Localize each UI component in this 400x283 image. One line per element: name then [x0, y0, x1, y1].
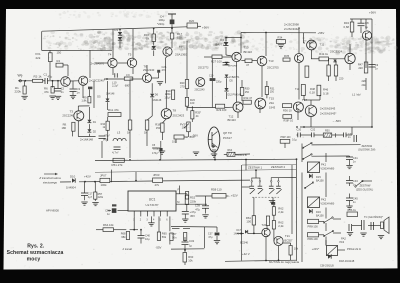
svg-text:BC546: BC546	[240, 241, 248, 245]
svg-text:+42 V: +42 V	[242, 252, 250, 256]
svg-text:270: 270	[180, 84, 185, 88]
svg-text:150: 150	[270, 91, 275, 94]
svg-text:1μ: 1μ	[365, 25, 369, 29]
svg-text:T17: T17	[302, 98, 307, 102]
svg-text:10k: 10k	[188, 259, 193, 263]
svg-text:0,1μ: 0,1μ	[292, 139, 297, 142]
svg-text:1,5μ*: 1,5μ*	[164, 95, 170, 99]
svg-text:T4: T4	[108, 53, 112, 57]
svg-text:2SC3773: 2SC3773	[198, 67, 209, 70]
svg-text:680*: 680*	[125, 83, 130, 87]
svg-text:220: 220	[339, 77, 344, 81]
svg-text:150: 150	[57, 51, 62, 55]
svg-text:R32·47: R32·47	[244, 96, 253, 100]
svg-text:T15: T15	[269, 97, 274, 101]
svg-text:BA158: BA158	[316, 215, 324, 218]
svg-text:10Ω: 10Ω	[172, 141, 177, 144]
svg-text:47μ*: 47μ*	[104, 134, 111, 138]
svg-text:C19: C19	[209, 74, 214, 77]
svg-text:2×BAY71: 2×BAY71	[229, 76, 240, 79]
svg-text:QP TR: QP TR	[223, 131, 232, 135]
svg-text:L3: L3	[117, 131, 121, 135]
svg-text:1n: 1n	[77, 90, 81, 94]
svg-text:45V: 45V	[190, 214, 195, 218]
svg-text:APY-8000: APY-8000	[46, 209, 59, 213]
svg-text:D1: D1	[93, 120, 97, 124]
svg-text:4,7n*: 4,7n*	[112, 151, 119, 155]
svg-text:1n: 1n	[353, 200, 356, 204]
svg-text:D15: D15	[316, 175, 321, 179]
svg-text:C31: C31	[105, 209, 110, 213]
svg-text:1N4004: 1N4004	[66, 186, 76, 190]
svg-text:C57: C57	[172, 232, 177, 236]
svg-text:T13: T13	[269, 59, 274, 63]
svg-text:D16: D16	[316, 210, 321, 214]
svg-text:*220p: *220p	[157, 22, 165, 26]
svg-text:100μ: 100μ	[153, 148, 159, 151]
svg-text:0,18: 0,18	[310, 91, 316, 95]
svg-text:R34: R34	[278, 36, 283, 40]
svg-text:C40: C40	[145, 234, 150, 238]
svg-text:47n: 47n	[162, 68, 167, 72]
svg-text:C32: C32	[189, 239, 195, 243]
svg-text:220k: 220k	[98, 196, 104, 199]
svg-text:100: 100	[246, 220, 251, 224]
svg-text:D2: D2	[93, 130, 97, 134]
svg-text:T8: T8	[173, 109, 177, 113]
svg-text:+56V: +56V	[318, 31, 325, 35]
svg-text:2 kanał: 2 kanał	[122, 247, 133, 251]
svg-text:47: 47	[246, 63, 250, 67]
svg-text:R38*·10: R38*·10	[284, 119, 294, 123]
svg-text:2×2SA970: 2×2SA970	[91, 62, 105, 66]
svg-text:1N4148: 1N4148	[234, 232, 243, 235]
svg-text:+42V: +42V	[84, 175, 91, 179]
svg-text:47μ: 47μ	[48, 74, 53, 78]
svg-text:PRG2-2k Ω: PRG2-2k Ω	[347, 247, 361, 251]
svg-text:C45: C45	[353, 197, 358, 201]
svg-text:22k: 22k	[36, 56, 41, 60]
svg-text:Rys. 2.: Rys. 2.	[27, 243, 45, 249]
svg-text:BA158: BA158	[316, 179, 324, 182]
svg-text:JP03: JP03	[153, 173, 160, 177]
svg-text:T6: T6	[144, 65, 148, 69]
svg-text:T7: T7	[179, 45, 183, 49]
svg-text:MUTING do nagrywania: MUTING do nagrywania	[269, 260, 299, 264]
svg-text:R11·47k: R11·47k	[108, 108, 119, 112]
svg-text:1μ: 1μ	[189, 244, 193, 248]
svg-text:2SC3324: 2SC3324	[330, 50, 342, 54]
svg-text:R35: R35	[284, 54, 290, 58]
svg-text:1n: 1n	[61, 90, 65, 94]
svg-text:1N4148: 1N4148	[153, 99, 162, 102]
svg-text:D3: D3	[114, 28, 118, 32]
svg-text:2SC2240: 2SC2240	[143, 68, 155, 72]
svg-text:1N4148: 1N4148	[106, 93, 115, 96]
svg-text:R64: R64	[228, 149, 233, 152]
svg-text:PR8-100: PR8-100	[308, 224, 319, 228]
svg-text:C30: C30	[297, 128, 302, 131]
svg-text:1943: 1943	[269, 106, 276, 110]
svg-text:D12 PN4148: D12 PN4148	[228, 93, 242, 96]
svg-text:2×2SA1943*: 2×2SA1943*	[320, 112, 337, 116]
svg-text:R51·27k: R51·27k	[112, 163, 123, 167]
svg-text:2k8: 2k8	[362, 80, 367, 83]
svg-text:BF423: BF423	[228, 118, 237, 122]
svg-text:220p: 220p	[216, 81, 222, 84]
svg-text:T14: T14	[295, 88, 300, 91]
svg-text:Z transformatora: Z transformatora	[38, 176, 61, 180]
svg-text:R29·100: R29·100	[216, 108, 227, 112]
svg-text:2SC2705: 2SC2705	[267, 65, 279, 69]
svg-text:R65: R65	[162, 232, 167, 236]
svg-text:+56V: +56V	[202, 26, 209, 30]
svg-text:Pk3: Pk3	[340, 240, 345, 244]
svg-text:1,8k: 1,8k	[81, 99, 87, 103]
svg-text:UL7317P: UL7317P	[146, 203, 159, 207]
svg-text:56n: 56n	[172, 236, 177, 240]
svg-text:ZESTAW 2: ZESTAW 2	[271, 165, 286, 169]
svg-text:BF422: BF422	[244, 50, 253, 54]
svg-text:220k: 220k	[190, 200, 197, 204]
svg-text:-55V: -55V	[156, 246, 162, 250]
svg-text:→-56V: →-56V	[189, 134, 198, 138]
svg-text:56k: 56k	[162, 235, 167, 239]
svg-text:2,2k: 2,2k	[278, 224, 284, 228]
svg-text:2×2SC3998: 2×2SC3998	[284, 22, 299, 26]
svg-text:C43: C43	[353, 179, 358, 183]
svg-text:T11: T11	[320, 43, 325, 47]
svg-text:R2·1k: R2·1k	[34, 75, 43, 79]
svg-text:R58·110: R58·110	[211, 188, 222, 192]
svg-text:R48: R48	[310, 87, 315, 91]
svg-text:UC1: UC1	[149, 198, 156, 202]
svg-text:C41: C41	[353, 156, 358, 160]
svg-text:2×2SA1943: 2×2SA1943	[320, 107, 336, 111]
svg-text:+56V: +56V	[369, 11, 376, 15]
svg-text:220k: 220k	[15, 90, 22, 94]
svg-text:JP07: JP07	[100, 173, 107, 177]
svg-text:Wy: Wy	[103, 138, 108, 142]
svg-text:R60: R60	[188, 255, 193, 259]
svg-text:23A: 23A	[269, 101, 274, 105]
svg-text:R68: R68	[121, 232, 126, 236]
svg-text:2SA1360: 2SA1360	[175, 52, 187, 56]
svg-text:V23034-M80: V23034-M80	[321, 203, 335, 206]
svg-text:V23034-M80: V23034-M80	[321, 168, 335, 171]
svg-text:2×1N4148: 2×1N4148	[80, 137, 93, 141]
svg-text:68k: 68k	[121, 235, 126, 239]
svg-text:1n: 1n	[353, 183, 356, 187]
svg-text:PA2: PA2	[341, 237, 346, 241]
svg-text:C58·2S62LB: C58·2S62LB	[320, 264, 334, 267]
svg-text:2,2k: 2,2k	[278, 210, 284, 214]
svg-text:0,68: 0,68	[344, 25, 350, 29]
svg-text:R36·10: R36·10	[283, 109, 292, 113]
svg-text:T10: T10	[244, 46, 249, 50]
svg-text:180: 180	[62, 126, 67, 130]
svg-text:KL613·B: KL613·B	[237, 153, 247, 157]
svg-text:T5: T5	[128, 53, 132, 57]
svg-text:ZESTAW: ZESTAW	[362, 144, 373, 148]
svg-text:2,2μ*: 2,2μ*	[112, 84, 118, 88]
svg-text:2SC2240: 2SC2240	[195, 88, 206, 91]
svg-text:Schemat wzmacniacza: Schemat wzmacniacza	[7, 250, 64, 256]
svg-text:10k: 10k	[182, 126, 187, 130]
svg-text:150: 150	[177, 36, 182, 40]
svg-text:→+52V: →+52V	[228, 194, 238, 198]
svg-text:4μ7: 4μ7	[88, 196, 93, 199]
svg-text:D10: D10	[70, 175, 76, 179]
svg-text:BAY71: BAY71	[216, 43, 225, 47]
svg-text:D18-1N4148: D18-1N4148	[339, 259, 355, 263]
svg-text:Wę: Wę	[18, 74, 23, 78]
svg-text:PK2: PK2	[321, 198, 327, 202]
svg-text:D4: D4	[220, 38, 224, 42]
svg-text:→-56V: →-56V	[332, 119, 341, 123]
svg-text:PK1: PK1	[321, 163, 327, 167]
svg-text:ZESTAW 1: ZESTAW 1	[248, 165, 263, 169]
svg-text:C32: C32	[311, 128, 316, 131]
svg-text:mocy: mocy	[27, 256, 41, 262]
svg-text:M: M	[177, 200, 179, 204]
svg-text:T20: T20	[262, 223, 267, 227]
svg-text:3,9: 3,9	[126, 73, 130, 77]
svg-text:R20: R20	[189, 19, 195, 23]
svg-text:220: 220	[358, 66, 363, 70]
svg-text:47μ: 47μ	[195, 208, 200, 212]
svg-text:150: 150	[245, 91, 250, 94]
svg-text:R50: R50	[325, 130, 330, 133]
svg-text:170μ*: 170μ*	[152, 152, 159, 155]
svg-text:R64·10k: R64·10k	[103, 223, 114, 227]
svg-text:D6: D6	[155, 92, 159, 96]
svg-text:47μ: 47μ	[208, 236, 213, 239]
svg-text:PMP·100: PMP·100	[281, 136, 292, 139]
svg-text:R42·1k: R42·1k	[319, 52, 328, 56]
svg-text:10μ: 10μ	[145, 237, 150, 241]
svg-text:L1 'rdz': L1 'rdz'	[352, 93, 362, 97]
svg-text:R4: R4	[57, 59, 61, 63]
svg-text:1n: 1n	[353, 159, 356, 163]
svg-text:R66·1k: R66·1k	[348, 208, 357, 212]
svg-text:1N4148*: 1N4148*	[228, 65, 237, 67]
svg-text:150: 150	[156, 126, 161, 130]
svg-text:T21: T21	[285, 234, 290, 238]
svg-text:sieciowego: sieciowego	[43, 181, 58, 185]
svg-text:100k: 100k	[101, 183, 108, 187]
svg-text:2SC2240: 2SC2240	[62, 114, 74, 118]
svg-text:2×2SC3342*: 2×2SC3342*	[284, 27, 301, 31]
svg-text:ZESTAW: ZESTAW	[360, 184, 371, 188]
svg-text:47k: 47k	[155, 183, 160, 187]
svg-text:BC557: BC557	[285, 239, 293, 243]
svg-text:47k: 47k	[44, 90, 49, 94]
svg-text:100: 100	[190, 101, 195, 105]
svg-text:(GŁOŚNIK ZW): (GŁOŚNIK ZW)	[358, 149, 376, 152]
svg-text:2×2SC2240*: 2×2SC2240*	[89, 79, 106, 83]
svg-text:PR8-100: PR8-100	[308, 237, 319, 241]
svg-text:10k: 10k	[294, 247, 299, 251]
svg-text:1n: 1n	[107, 212, 110, 216]
svg-text:+24V*: +24V*	[312, 247, 319, 251]
svg-text:PC617: PC617	[223, 136, 232, 140]
svg-text:R47: R47	[358, 63, 363, 67]
svg-text:R27·100: R27·100	[211, 60, 222, 64]
svg-text:2SC3423: 2SC3423	[173, 114, 185, 118]
svg-text:0,18: 0,18	[323, 92, 329, 96]
svg-text:R20: R20	[180, 81, 185, 85]
